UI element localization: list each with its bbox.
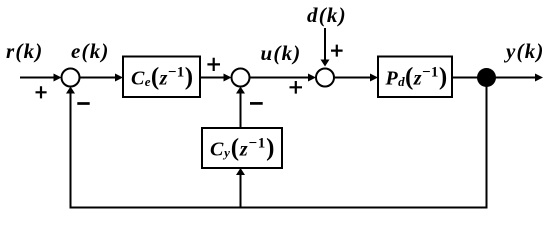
sign + at S2 input [207,58,220,71]
wire: feedback drop from pickoff node [486,78,488,208]
sign + at S1 input [36,86,47,98]
wire: S2 output u(k) to summing junction S3 [250,74,317,82]
wire: feedback rise into summing junction S1 [66,87,75,208]
sign + at S3 input [290,81,303,94]
wire: S3 output to block Pd [334,74,378,82]
block Cy [202,128,282,168]
wire: disturbance d(k) arrow into S3 from top [321,28,330,67]
sign + at S3 disturbance [331,45,343,57]
svg-text:Pd(z−1): Pd(z−1) [385,64,448,91]
summing junction S1 [62,69,80,87]
wire: block Pd to output y(k) through pickoff node [452,74,543,82]
sign minus at S1 feedback [77,102,89,105]
svg-text:Ce(z−1): Ce(z−1) [131,64,193,91]
svg-text:e(k): e(k) [71,39,110,63]
wire: block Ce to summing junction S2 [200,74,232,82]
svg-text:Cy(z−1): Cy(z−1) [210,135,275,162]
node: pickoff point (filled dot) [477,68,496,87]
summing junction S2 [232,69,250,87]
wire: S1 output e(k) to block Ce [80,74,124,82]
wire: feedback branch up into block Cy [236,168,245,208]
sign minus at S2 feedback [250,102,263,105]
block Pd [378,57,452,98]
wire: block Cy output up into summing junction S2 [236,87,245,129]
svg-text:d(k): d(k) [307,3,347,27]
svg-text:y(k): y(k) [503,39,545,63]
svg-text:r(k): r(k) [6,39,43,63]
wire: r(k) input arrow into summing junction S1 [20,74,62,82]
svg-text:u(k): u(k) [261,41,302,65]
summing junction S3 [316,69,334,87]
block Ce [123,57,200,98]
wire: bottom feedback bus [70,207,488,209]
